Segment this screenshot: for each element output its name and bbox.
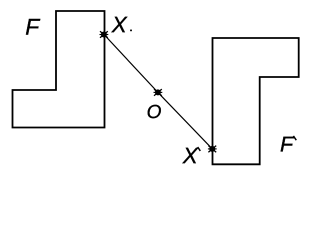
svg-text:X: X <box>182 143 199 168</box>
wire: segment O to X' <box>158 92 212 148</box>
figure F outline (left L-shaped polygon) <box>13 11 105 128</box>
label dot after X <box>130 29 132 31</box>
svg-text:F: F <box>25 14 40 40</box>
svg-text:X: X <box>111 12 128 37</box>
node O marker <box>154 89 163 96</box>
svg-text:O: O <box>147 102 162 123</box>
prime mark of F' <box>293 136 296 140</box>
svg-text:F: F <box>280 133 295 157</box>
wire: segment X to O <box>104 35 158 93</box>
figure F' outline (right rotated L-shaped polygon) <box>213 38 299 164</box>
node X' marker <box>208 146 217 153</box>
prime mark of X' <box>198 147 201 151</box>
node X marker <box>100 31 109 38</box>
